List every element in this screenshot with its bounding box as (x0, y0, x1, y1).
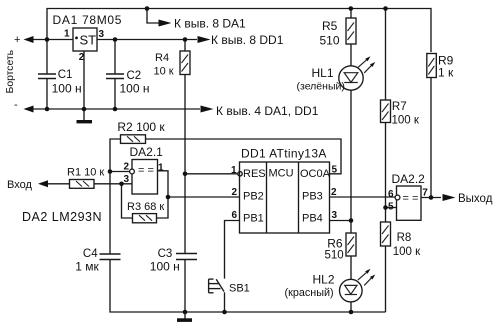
svg-text:R8: R8 (397, 232, 412, 244)
svg-text:2: 2 (124, 162, 130, 173)
svg-text:510: 510 (325, 250, 344, 262)
svg-text:R3 68 к: R3 68 к (127, 201, 164, 213)
svg-text:PB3: PB3 (302, 191, 323, 203)
svg-text:510: 510 (320, 34, 340, 48)
svg-text:100 н: 100 н (120, 82, 150, 96)
svg-text:PB1: PB1 (243, 213, 264, 225)
svg-text:1: 1 (64, 28, 70, 39)
svg-text:= =: = = (403, 193, 419, 205)
svg-text:2: 2 (331, 187, 337, 198)
svg-text:R7: R7 (392, 101, 407, 113)
svg-text:К выв. 8 DD1: К выв. 8 DD1 (211, 33, 284, 47)
svg-text:1 мк: 1 мк (75, 260, 99, 274)
svg-text:MCU: MCU (269, 167, 294, 179)
svg-text:5: 5 (332, 165, 338, 176)
svg-text:-: - (14, 99, 18, 111)
svg-text:R5: R5 (322, 19, 338, 33)
svg-text:2: 2 (79, 52, 85, 63)
svg-text:Вход: Вход (7, 179, 32, 191)
svg-text:RES: RES (243, 168, 266, 180)
svg-text:DD1 ATtiny13A: DD1 ATtiny13A (241, 147, 327, 161)
svg-text:R1 10 к: R1 10 к (67, 167, 104, 179)
svg-text:(красный): (красный) (285, 287, 334, 299)
svg-text:10 к: 10 к (154, 66, 174, 78)
svg-text:ST: ST (80, 32, 97, 47)
svg-text:1: 1 (158, 163, 164, 174)
svg-text:HL1: HL1 (312, 66, 334, 80)
svg-text:К выв. 8 DA1: К выв. 8 DA1 (174, 16, 246, 30)
svg-text:Бортсеть: Бортсеть (5, 50, 16, 94)
svg-text:R2 100 к: R2 100 к (117, 120, 165, 134)
svg-text:PB4: PB4 (302, 213, 323, 225)
svg-text:Выход: Выход (458, 193, 493, 205)
svg-text:5: 5 (388, 201, 394, 212)
svg-text:100 н: 100 н (150, 260, 180, 274)
svg-text:PB2: PB2 (243, 191, 264, 203)
svg-text:C3: C3 (158, 248, 173, 260)
svg-text:= =: = = (138, 165, 154, 177)
svg-text:100 н: 100 н (52, 82, 82, 96)
svg-text:100 к: 100 к (392, 114, 420, 126)
svg-text:+: + (14, 34, 20, 46)
svg-text:R6: R6 (327, 237, 343, 251)
svg-text:C2: C2 (127, 70, 142, 82)
svg-text:1 к: 1 к (438, 66, 454, 80)
svg-text:(зелёный): (зелёный) (297, 81, 345, 93)
svg-text:3: 3 (124, 174, 130, 185)
svg-text:К выв. 4 DA1, DD1: К выв. 4 DA1, DD1 (216, 104, 319, 118)
svg-text:3: 3 (332, 210, 338, 221)
svg-text:6: 6 (232, 210, 238, 221)
svg-text:DA1 78M05: DA1 78M05 (53, 13, 123, 27)
svg-text:DA2 LM293N: DA2 LM293N (22, 210, 102, 224)
svg-text:7: 7 (422, 187, 428, 198)
svg-text:SB1: SB1 (229, 283, 250, 295)
svg-text:DA2.1: DA2.1 (130, 145, 164, 159)
svg-text:3: 3 (99, 29, 105, 40)
svg-text:R4: R4 (155, 52, 169, 64)
svg-text:C4: C4 (83, 248, 98, 260)
svg-text:100 к: 100 к (393, 246, 421, 258)
svg-text:C1: C1 (58, 69, 73, 81)
svg-text:1: 1 (231, 165, 237, 176)
svg-text:2: 2 (232, 187, 238, 198)
svg-text:HL2: HL2 (313, 273, 335, 287)
svg-text:6: 6 (388, 189, 394, 200)
svg-text:OC0A: OC0A (300, 168, 331, 180)
svg-text:DA2.2: DA2.2 (392, 172, 426, 186)
